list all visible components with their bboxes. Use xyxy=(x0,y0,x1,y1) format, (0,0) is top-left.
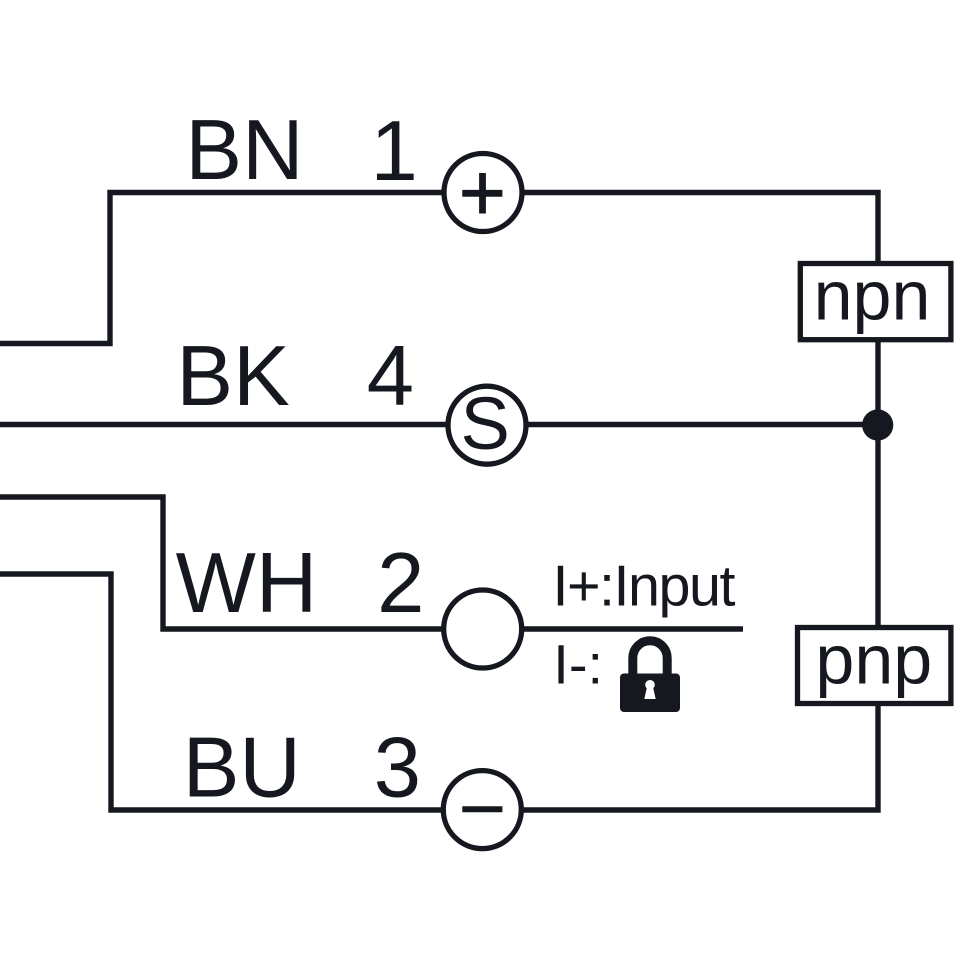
wire BN (left stub, riser, top run to right bus) xyxy=(0,193,878,344)
label I+:Input annotation xyxy=(553,555,736,619)
pnp output box xyxy=(798,628,951,704)
svg-text:1: 1 xyxy=(371,104,418,199)
svg-text:2: 2 xyxy=(377,536,424,631)
node junction dot on right bus at BK row xyxy=(862,409,893,440)
label pnp xyxy=(815,620,932,698)
wire BU (left stub, riser at x111, bottom run to right bus) xyxy=(0,574,878,810)
label WH wire name xyxy=(176,536,318,631)
label I-: annotation xyxy=(553,632,603,695)
label npn xyxy=(814,256,931,334)
svg-text:BK: BK xyxy=(176,329,289,424)
label BU wire name xyxy=(183,721,301,816)
svg-text:S: S xyxy=(461,382,510,465)
svg-text:I+:Input: I+:Input xyxy=(553,555,736,619)
svg-text:I-:: I-: xyxy=(553,632,603,695)
wire BK (row 4 run from left edge to junction) xyxy=(0,422,878,427)
lock icon body xyxy=(620,674,680,713)
minus symbol in pin 3 xyxy=(462,806,502,812)
wire right bus npn-to-junction xyxy=(875,342,880,425)
svg-text:BU: BU xyxy=(183,721,301,816)
svg-text:BN: BN xyxy=(185,103,303,198)
lock icon keyhole xyxy=(644,680,655,699)
svg-text:npn: npn xyxy=(814,256,931,334)
svg-text:pnp: pnp xyxy=(815,620,932,698)
svg-text:WH: WH xyxy=(176,536,318,631)
label pin number 2 xyxy=(377,536,424,631)
npn output box xyxy=(800,264,951,340)
lock icon shackle xyxy=(633,641,667,676)
label BK wire name xyxy=(176,329,289,424)
label pin number 3 xyxy=(374,721,421,816)
label pin number 1 xyxy=(371,104,418,199)
terminal circle pin 4 (S) xyxy=(448,386,526,464)
wire WH (left stub, riser at x163, run to I-line end) xyxy=(0,497,743,629)
terminal circle pin 3 (−) xyxy=(443,771,521,849)
svg-text:3: 3 xyxy=(374,721,421,816)
label pin number 4 xyxy=(367,329,414,424)
wire right bus junction-to-pnp xyxy=(875,425,880,625)
svg-text:4: 4 xyxy=(367,329,414,424)
label BN wire name xyxy=(185,103,303,198)
label S in pin 4 xyxy=(461,382,510,465)
terminal circle pin 1 (+) xyxy=(444,154,522,232)
terminal circle pin 2 (plain) xyxy=(444,590,522,668)
plus symbol in pin 1 xyxy=(462,173,502,214)
